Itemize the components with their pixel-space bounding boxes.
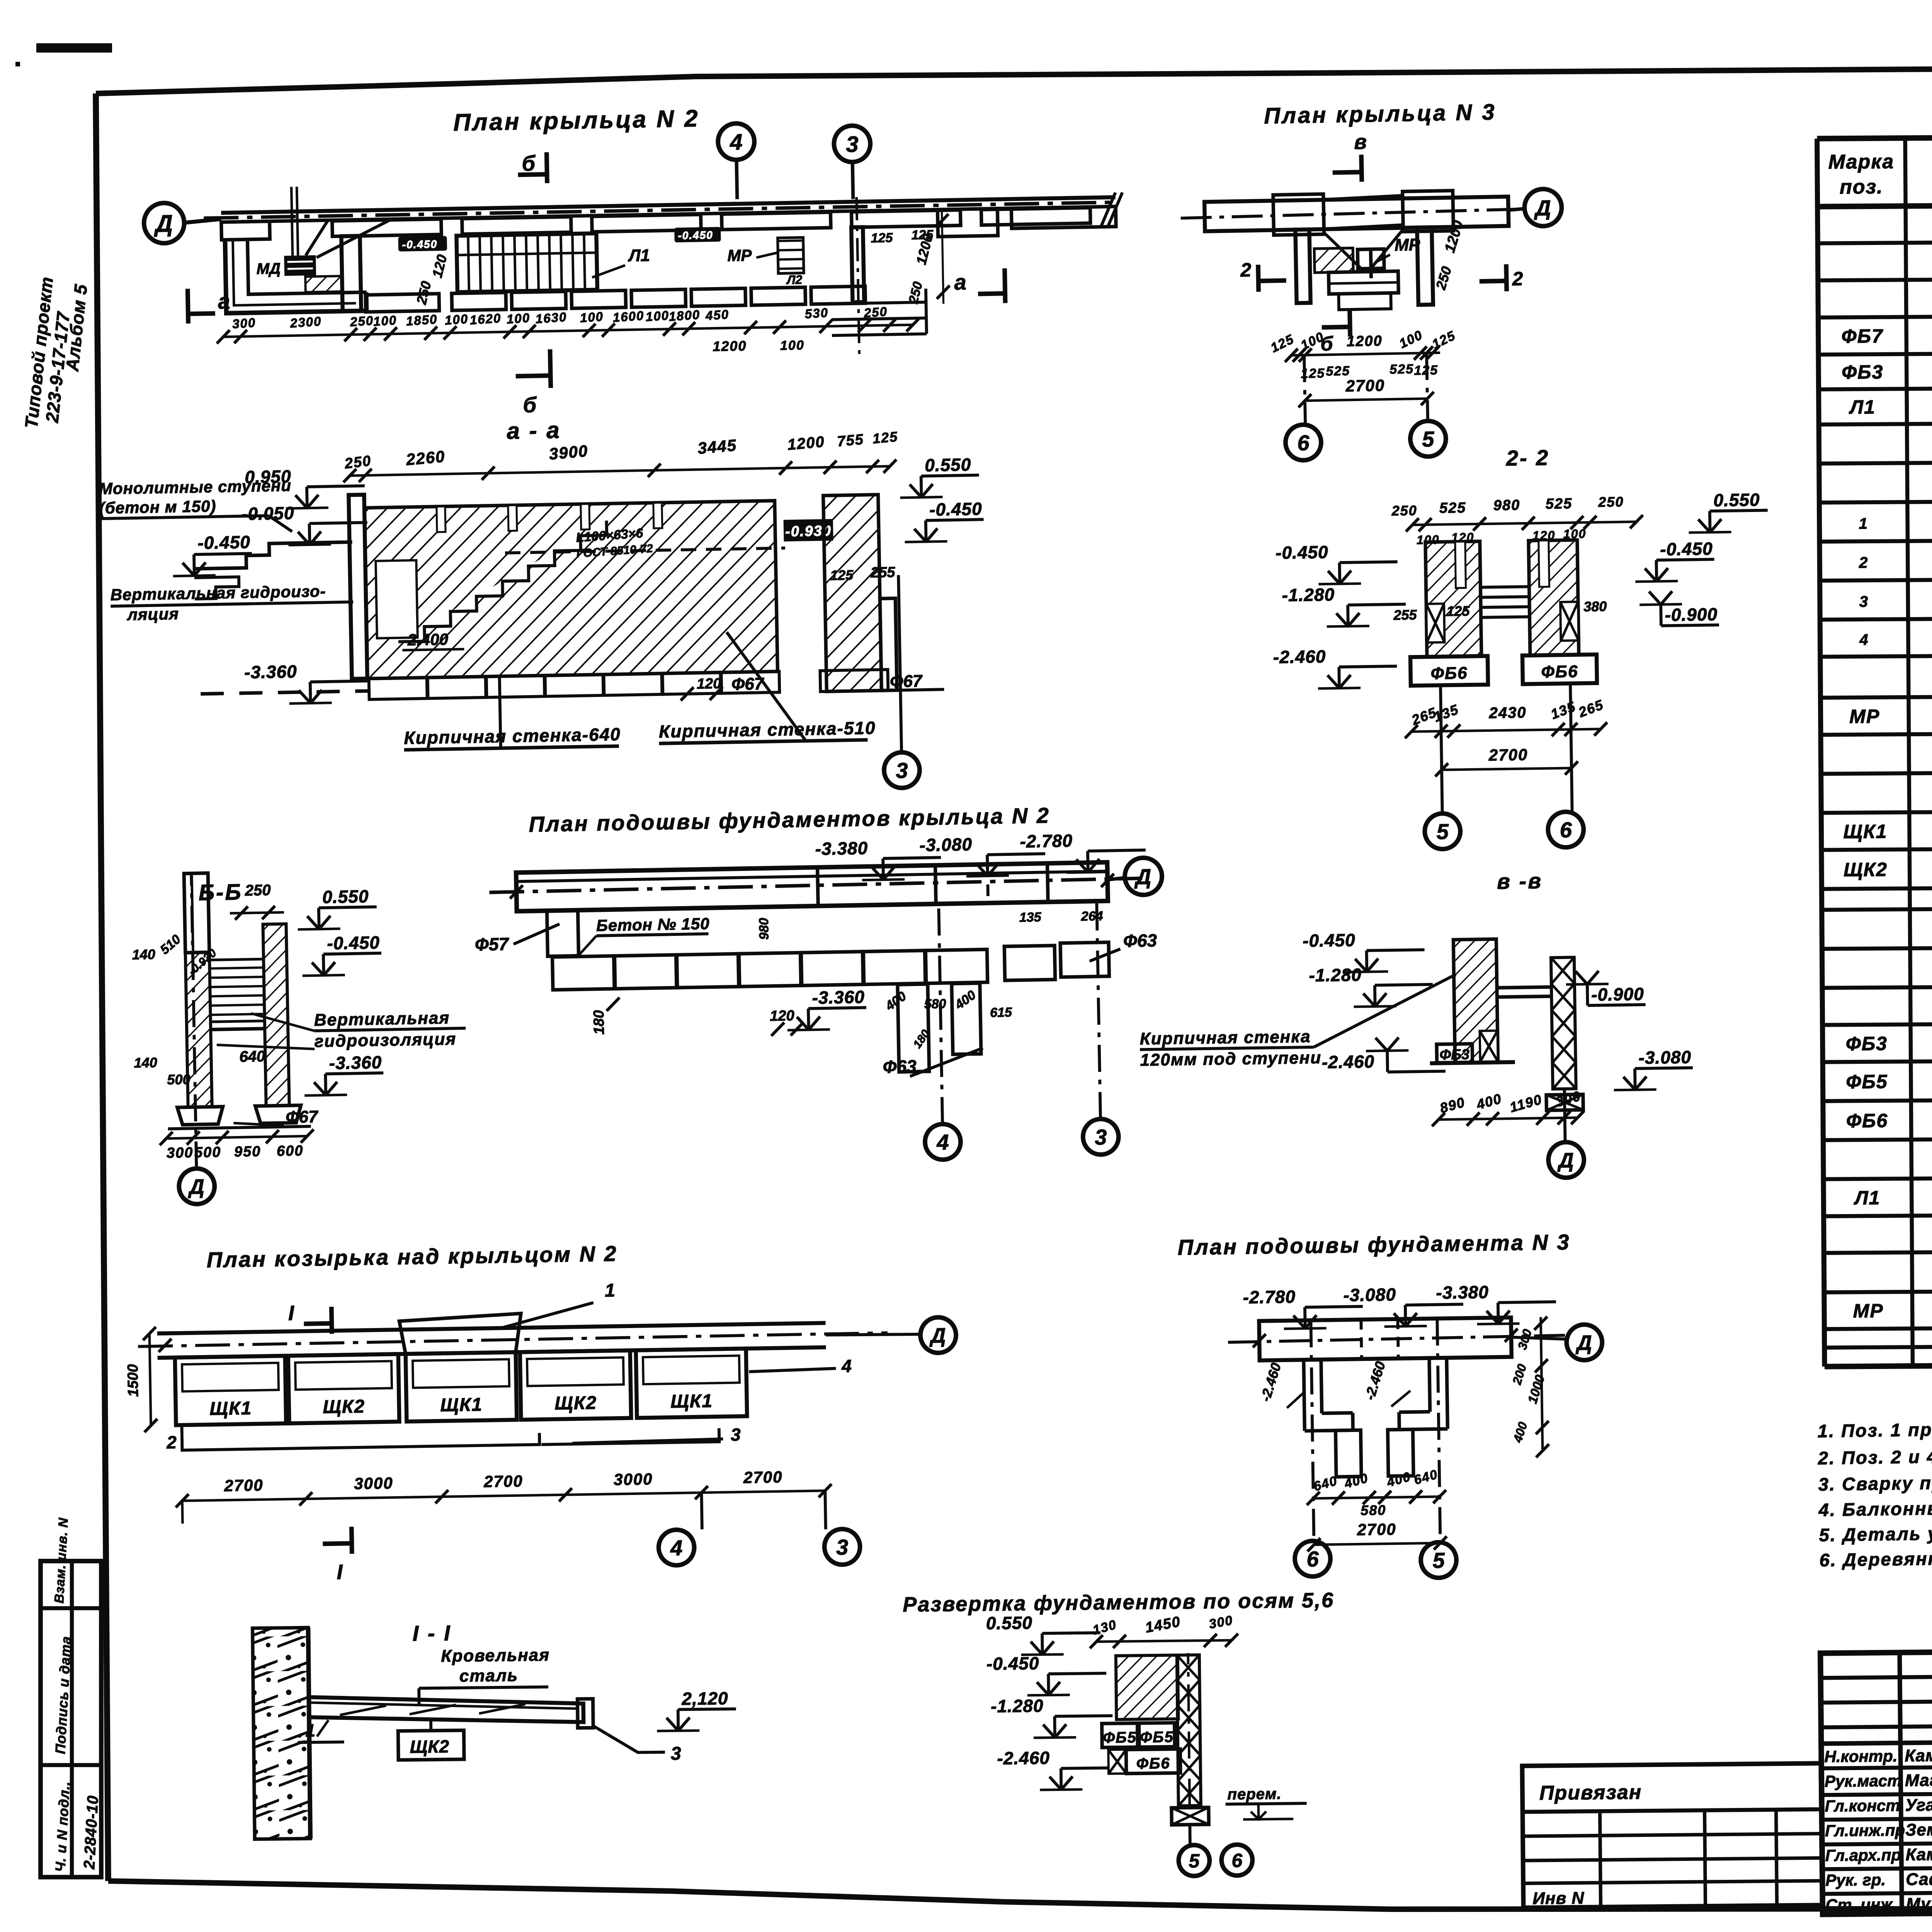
svg-text:3: 3: [1095, 1125, 1107, 1150]
svg-text:ЩК1: ЩК1: [1843, 821, 1887, 843]
svg-text:3900: 3900: [548, 442, 589, 463]
svg-text:Д: Д: [187, 1175, 204, 1199]
svg-text:Бетон № 150: Бетон № 150: [596, 915, 710, 935]
svg-text:100: 100: [580, 309, 604, 325]
svg-text:-2.460: -2.460: [1321, 1051, 1374, 1072]
svg-text:Кровельная: Кровельная: [441, 1646, 550, 1666]
svg-text:500: 500: [167, 1071, 190, 1087]
svg-text:120: 120: [770, 1008, 794, 1024]
svg-text:120мм под ступени: 120мм под ступени: [1140, 1048, 1321, 1070]
svg-text:ЩК1: ЩК1: [209, 1398, 252, 1419]
svg-text:Л1: Л1: [1854, 1187, 1881, 1209]
svg-text:-0.900: -0.900: [1665, 604, 1718, 625]
svg-text:125: 125: [871, 230, 893, 245]
svg-text:поз.: поз.: [1840, 176, 1883, 199]
svg-text:640: 640: [239, 1048, 265, 1065]
svg-text:Кирпичная стенка-510: Кирпичная стенка-510: [659, 718, 876, 742]
svg-text:б: б: [523, 393, 537, 417]
svg-text:Д: Д: [1534, 196, 1551, 220]
svg-text:Марка: Марка: [1828, 150, 1894, 173]
svg-text:980: 980: [757, 918, 772, 940]
svg-text:250: 250: [863, 304, 888, 320]
svg-text:в: в: [1354, 130, 1367, 154]
svg-text:Д: Д: [153, 210, 173, 237]
svg-text:264: 264: [1081, 909, 1103, 924]
svg-text:2: 2: [166, 1432, 177, 1452]
svg-text:100: 100: [444, 311, 469, 327]
svg-text:5: 5: [1432, 1548, 1445, 1572]
svg-text:(бетон м 150): (бетон м 150): [99, 497, 216, 517]
svg-text:250: 250: [344, 453, 372, 472]
svg-text:ЩК2: ЩК2: [410, 1736, 449, 1757]
svg-text:План крыльца N 3: План крыльца N 3: [1264, 99, 1497, 128]
svg-text:4: 4: [936, 1130, 949, 1155]
svg-text:0.550: 0.550: [986, 1612, 1033, 1633]
svg-text:-3.080: -3.080: [919, 834, 972, 855]
svg-text:250: 250: [1391, 502, 1417, 519]
svg-text:Камай: Камай: [1905, 1746, 1932, 1765]
svg-text:ЩК1: ЩК1: [440, 1395, 483, 1416]
svg-text:МР: МР: [1853, 1300, 1883, 1321]
svg-text:ФБ3: ФБ3: [1846, 1033, 1888, 1055]
svg-text:МР: МР: [1849, 706, 1880, 727]
svg-text:Б-Б: Б-Б: [198, 879, 243, 905]
svg-text:6: 6: [1560, 818, 1572, 842]
svg-text:I: I: [288, 1301, 294, 1325]
svg-text:Угаров: Угаров: [1905, 1795, 1932, 1815]
svg-text:3: 3: [731, 1424, 741, 1444]
svg-text:380: 380: [1583, 598, 1607, 614]
svg-text:2430: 2430: [1488, 704, 1527, 721]
svg-text:140: 140: [132, 946, 155, 963]
svg-text:Кирпичная стенка-640: Кирпичная стенка-640: [404, 724, 621, 748]
svg-text:План крыльца N 2: План крыльца N 2: [453, 105, 700, 136]
svg-text:Ф63: Ф63: [1123, 930, 1157, 951]
svg-text:-3.380: -3.380: [815, 838, 868, 859]
svg-text:б: б: [522, 151, 536, 176]
svg-text:Ф67: Ф67: [286, 1107, 319, 1127]
svg-text:сталь: сталь: [459, 1666, 519, 1686]
svg-text:250: 250: [1598, 494, 1624, 510]
svg-text:ЩК2: ЩК2: [554, 1393, 597, 1414]
svg-text:-3.080: -3.080: [1638, 1047, 1691, 1068]
svg-text:3000: 3000: [354, 1474, 393, 1493]
svg-text:ФБ5: ФБ5: [1140, 1729, 1174, 1746]
svg-text:580: 580: [1361, 1502, 1386, 1518]
svg-text:0.950: 0.950: [245, 466, 291, 487]
svg-text:950: 950: [234, 1143, 261, 1160]
svg-text:100: 100: [373, 313, 397, 328]
svg-text:Магидин: Магидин: [1905, 1770, 1932, 1790]
svg-text:ляция: ляция: [126, 605, 179, 624]
svg-text:Сафарова: Сафарова: [1906, 1869, 1932, 1889]
svg-text:3: 3: [846, 132, 859, 157]
svg-text:6: 6: [1306, 1547, 1319, 1571]
svg-text:а - а: а - а: [507, 417, 561, 444]
svg-text:-2.780: -2.780: [1243, 1286, 1296, 1307]
svg-text:255: 255: [1393, 607, 1417, 623]
svg-text:250: 250: [245, 882, 271, 899]
svg-text:1200: 1200: [1347, 333, 1383, 350]
svg-text:-0.450: -0.450: [1303, 930, 1355, 951]
svg-text:Ф57: Ф57: [474, 934, 509, 955]
svg-text:Ф63: Ф63: [883, 1056, 917, 1077]
svg-text:Д: Д: [929, 1324, 946, 1347]
svg-text:300: 300: [232, 315, 256, 331]
svg-text:Д: Д: [1557, 1149, 1574, 1172]
svg-text:2700: 2700: [1345, 376, 1385, 395]
svg-text:Рук. гр.: Рук. гр.: [1825, 1871, 1886, 1889]
svg-text:1: 1: [305, 1720, 315, 1740]
svg-text:1200: 1200: [713, 338, 747, 354]
svg-text:1: 1: [605, 1280, 616, 1301]
svg-text:Развертка фундаментов по ос: Развертка фундаментов по осям 5,6: [903, 1588, 1334, 1616]
svg-text:4: 4: [670, 1536, 683, 1560]
svg-text:Л1: Л1: [628, 246, 650, 265]
svg-text:5: 5: [1436, 819, 1449, 844]
svg-text:2300: 2300: [289, 314, 322, 330]
svg-text:615: 615: [990, 1005, 1012, 1020]
svg-text:120: 120: [697, 675, 721, 692]
svg-text:600: 600: [277, 1143, 304, 1159]
svg-text:125: 125: [872, 429, 898, 447]
svg-text:-2.460: -2.460: [1273, 646, 1326, 667]
svg-text:ЩК1: ЩК1: [670, 1391, 713, 1412]
svg-text:а: а: [218, 289, 230, 313]
svg-text:-0.450: -0.450: [402, 238, 437, 251]
svg-text:-1.280: -1.280: [991, 1696, 1044, 1716]
svg-text:Привязан: Привязан: [1539, 1781, 1642, 1804]
svg-text:-0.450: -0.450: [1276, 542, 1328, 563]
svg-text:2700: 2700: [483, 1472, 523, 1491]
svg-text:-1.280: -1.280: [1309, 964, 1362, 985]
svg-text:1500: 1500: [125, 1364, 141, 1397]
svg-text:Земляк: Земляк: [1905, 1820, 1932, 1839]
svg-text:2700: 2700: [743, 1468, 783, 1487]
svg-text:3: 3: [836, 1535, 849, 1559]
svg-text:ЩК2: ЩК2: [1844, 859, 1888, 881]
svg-text:МР: МР: [1395, 235, 1420, 255]
svg-text:525: 525: [1389, 362, 1414, 377]
svg-text:-3.080: -3.080: [1343, 1284, 1396, 1305]
svg-text:Л1: Л1: [1849, 396, 1876, 418]
svg-text:Кирпичная стенка: Кирпичная стенка: [1139, 1027, 1311, 1048]
svg-text:ФБ5: ФБ5: [1846, 1071, 1888, 1093]
svg-text:Ф67: Ф67: [731, 674, 765, 694]
svg-text:4: 4: [730, 129, 743, 155]
svg-text:530: 530: [804, 305, 829, 321]
svg-text:Вертикальная гидроизо-: Вертикальная гидроизо-: [110, 582, 326, 604]
svg-text:ФБ3: ФБ3: [1439, 1046, 1469, 1063]
svg-text:3: 3: [671, 1743, 682, 1764]
svg-text:а: а: [954, 270, 966, 294]
svg-text:-0.900: -0.900: [1591, 984, 1644, 1005]
svg-text:580: 580: [924, 997, 946, 1012]
svg-text:3: 3: [1859, 593, 1869, 610]
svg-text:100: 100: [645, 308, 670, 324]
svg-text:0.550: 0.550: [322, 886, 369, 907]
svg-text:1800: 1800: [668, 307, 701, 324]
svg-text:100: 100: [506, 310, 531, 326]
svg-text:1630: 1630: [535, 310, 568, 326]
svg-text:525: 525: [1439, 500, 1466, 516]
svg-text:-0.050: -0.050: [241, 503, 294, 524]
svg-text:-3.360: -3.360: [812, 987, 865, 1008]
svg-text:2: 2: [1512, 268, 1523, 289]
svg-text:980: 980: [1493, 497, 1520, 514]
svg-text:-0.450: -0.450: [1660, 539, 1713, 560]
svg-text:Мухина: Мухина: [1906, 1894, 1932, 1913]
svg-text:525: 525: [1545, 496, 1572, 512]
svg-text:1850: 1850: [406, 312, 438, 328]
svg-text:2700: 2700: [1357, 1520, 1396, 1539]
svg-text:2: 2: [1859, 554, 1869, 571]
svg-text:ФБ3: ФБ3: [1842, 361, 1884, 383]
svg-text:0.550: 0.550: [1713, 490, 1760, 510]
svg-text:5: 5: [1422, 427, 1435, 451]
svg-text:2- 2: 2- 2: [1505, 445, 1549, 470]
svg-text:ФБ6: ФБ6: [1430, 663, 1468, 683]
svg-text:140: 140: [134, 1054, 157, 1071]
svg-text:Ф67: Ф67: [890, 672, 923, 691]
svg-text:-0.450: -0.450: [929, 498, 982, 519]
svg-text:255: 255: [870, 564, 896, 581]
svg-text:6: 6: [1231, 1850, 1243, 1871]
svg-text:-2.400: -2.400: [402, 630, 448, 649]
svg-text:Камай: Камай: [1905, 1845, 1932, 1864]
svg-text:ФБ6: ФБ6: [1136, 1755, 1170, 1772]
svg-text:100: 100: [780, 338, 804, 353]
svg-text:250: 250: [349, 313, 374, 329]
svg-text:-3.360: -3.360: [329, 1052, 382, 1073]
svg-text:3445: 3445: [697, 436, 738, 457]
svg-text:755: 755: [837, 431, 865, 450]
svg-text:в -в: в -в: [1497, 869, 1543, 894]
svg-text:2: 2: [1240, 259, 1252, 281]
svg-text:Ст. инж.: Ст. инж.: [1826, 1895, 1897, 1914]
svg-text:Гл.арх.пр: Гл.арх.пр: [1825, 1846, 1901, 1865]
svg-text:-2.780: -2.780: [1020, 830, 1073, 851]
svg-text:0.550: 0.550: [925, 454, 971, 475]
svg-text:Д: Д: [1575, 1331, 1592, 1355]
svg-text:125: 125: [830, 567, 854, 583]
svg-text:2260: 2260: [405, 447, 446, 469]
svg-text:-0.450: -0.450: [197, 532, 250, 553]
svg-text:5: 5: [1189, 1850, 1200, 1872]
svg-text:Н.контр.: Н.контр.: [1824, 1747, 1897, 1766]
svg-text:МР: МР: [727, 246, 752, 265]
svg-text:-3.380: -3.380: [1436, 1282, 1489, 1303]
svg-text:180: 180: [591, 1010, 607, 1035]
svg-text:ФБ6: ФБ6: [1541, 662, 1578, 681]
svg-text:ФБ7: ФБ7: [1841, 325, 1883, 347]
svg-text:3000: 3000: [614, 1470, 653, 1489]
svg-text:Гл.инж.пр: Гл.инж.пр: [1825, 1821, 1905, 1840]
svg-text:Гл.конст: Гл.конст: [1825, 1796, 1900, 1815]
svg-text:Д: Д: [1134, 864, 1151, 889]
svg-text:-2.460: -2.460: [997, 1748, 1050, 1768]
svg-text:2700: 2700: [1488, 745, 1528, 764]
svg-text:1620: 1620: [469, 311, 502, 327]
svg-text:ФБ5: ФБ5: [1103, 1729, 1137, 1747]
svg-text:1600: 1600: [612, 308, 645, 325]
svg-text:Рук.маст: Рук.маст: [1825, 1772, 1902, 1791]
svg-text:Л2: Л2: [786, 273, 803, 287]
svg-text:гидроизоляция: гидроизоляция: [314, 1029, 456, 1051]
svg-text:450: 450: [705, 307, 730, 323]
svg-text:300: 300: [167, 1145, 194, 1161]
svg-text:-0.450: -0.450: [327, 932, 380, 953]
svg-text:6: 6: [1297, 430, 1310, 455]
svg-text:1200: 1200: [787, 433, 825, 453]
svg-text:1: 1: [1859, 515, 1868, 532]
svg-text:135: 135: [1019, 910, 1042, 925]
svg-text:4: 4: [841, 1356, 852, 1376]
svg-text:4: 4: [1859, 631, 1869, 648]
svg-text:Инв N: Инв N: [1532, 1889, 1584, 1908]
svg-text:3: 3: [896, 758, 908, 783]
svg-text:I: I: [337, 1561, 343, 1584]
svg-text:ЩК2: ЩК2: [323, 1396, 365, 1418]
svg-text:-0.450: -0.450: [678, 229, 713, 242]
svg-text:-0.450: -0.450: [986, 1653, 1039, 1673]
svg-text:2700: 2700: [224, 1476, 264, 1495]
svg-text:Вертикальная: Вертикальная: [314, 1009, 450, 1030]
svg-text:МД: МД: [256, 260, 281, 277]
svg-text:-3.360: -3.360: [244, 661, 297, 682]
svg-text:2,120: 2,120: [681, 1688, 728, 1709]
svg-text:I - I: I - I: [412, 1621, 452, 1645]
svg-text:перем.: перем.: [1227, 1786, 1282, 1803]
svg-text:-1.280: -1.280: [1282, 584, 1335, 605]
svg-text:125: 125: [1446, 603, 1470, 619]
svg-text:500: 500: [194, 1144, 221, 1161]
svg-text:ФБ6: ФБ6: [1846, 1110, 1888, 1132]
